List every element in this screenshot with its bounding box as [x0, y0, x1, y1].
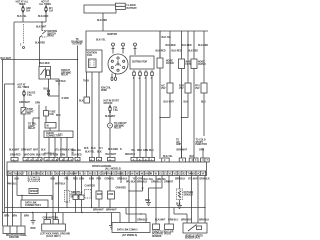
svg-text:KNK: KNK [109, 194, 114, 196]
svg-text:YEL-GRN: YEL-GRN [133, 179, 143, 181]
connector box x46 [45, 123, 56, 129]
svg-text:RELAY: RELAY [28, 127, 36, 130]
distributor circle [108, 54, 128, 74]
bottom segment 4 [174, 213, 187, 215]
fuse EFI [45, 6, 46, 7]
svg-text:BRN-BLK: BRN-BLK [200, 179, 211, 181]
svg-text:VC: VC [174, 173, 177, 175]
svg-text:BLK-RED: BLK-RED [188, 51, 198, 53]
svg-text:BLK-YEL: BLK-YEL [36, 154, 46, 156]
wire ac amp stub [181, 146, 183, 159]
wire left border 1 [2, 60, 4, 227]
svg-text:30A: 30A [26, 9, 30, 12]
svg-text:BRN-BLK: BRN-BLK [199, 219, 210, 221]
speed sensor box [29, 189, 38, 194]
svg-text:BLK-RED: BLK-RED [97, 20, 107, 22]
wire cold start stub [202, 148, 204, 159]
ground mid [146, 202, 151, 204]
svg-text:LT GRN: LT GRN [50, 154, 58, 156]
svg-text:VS: VS [65, 173, 68, 175]
svg-text:BLK-RED: BLK-RED [182, 45, 192, 47]
ground o2 [177, 205, 182, 207]
svg-text:BLK: BLK [51, 179, 56, 181]
wire horizontal y195 [17, 195, 52, 197]
svg-text:T E1: T E1 [58, 134, 63, 136]
svg-text:BLK-RED: BLK-RED [108, 149, 118, 151]
wire charging trunk [77, 46, 79, 158]
wire pairA right [169, 31, 171, 118]
svg-text:DATA LINK CONN 2: DATA LINK CONN 2 [117, 229, 138, 232]
wire pairC right [203, 31, 205, 83]
wire below w4 [51, 196, 53, 201]
svg-text:BLK-WHT: BLK-WHT [9, 150, 20, 152]
svg-text:WHT: WHT [33, 150, 39, 152]
svg-text:WHT: WHT [168, 182, 174, 184]
svg-text:VC: VC [197, 173, 200, 175]
wire pairA left cont [159, 68, 161, 159]
svg-text:BRN: BRN [145, 200, 150, 202]
noise filter box A [157, 58, 163, 68]
svg-text:OR RUN: OR RUN [104, 103, 113, 105]
svg-text:FL MAIN: FL MAIN [127, 4, 136, 7]
top terminal row [11, 157, 18, 160]
svg-text:VALVE: VALVE [164, 233, 172, 236]
svg-text:BATTERY: BATTERY [127, 7, 138, 10]
svg-text:G: G [84, 173, 86, 175]
svg-text:BLK-RED: BLK-RED [40, 63, 50, 65]
tower 3 [134, 43, 137, 46]
cell boxes [44, 220, 51, 225]
merge B [182, 117, 189, 119]
svg-text:BLU-YEL: BLU-YEL [144, 179, 154, 181]
svg-text:BLK: BLK [56, 115, 61, 117]
svg-text:GRN: GRN [89, 179, 94, 181]
wires coil down [91, 72, 93, 158]
svg-text:PPL-BLK: PPL-BLK [126, 182, 136, 184]
ECU terminal cells [7, 170, 207, 172]
svg-text:BRN: BRN [24, 216, 29, 218]
wire below w14 [135, 176, 137, 224]
svg-text:WHT-BLK: WHT-BLK [55, 184, 66, 186]
svg-text:COIL: COIL [87, 55, 93, 57]
svg-text:B-R: B-R [29, 179, 33, 181]
svg-text:BLK-YEL: BLK-YEL [96, 40, 106, 42]
svg-text:RED: RED [137, 150, 142, 152]
svg-text:OX: OX [192, 173, 196, 175]
small box SB2 [165, 224, 174, 230]
wire main left vertical [13, 22, 15, 164]
wire fuse EFI feed [45, 5, 47, 23]
merge A [160, 117, 170, 119]
svg-text:BLK-RED: BLK-RED [35, 43, 45, 45]
svg-text:BLK-WHT: BLK-WHT [164, 101, 175, 103]
svg-text:GRN-RED: GRN-RED [116, 188, 127, 190]
svg-text:15A: 15A [49, 9, 53, 12]
svg-text:TIMES: TIMES [19, 4, 26, 6]
wire pairC left [193, 31, 195, 59]
vsv box B [185, 83, 191, 93]
wire below w10 [98, 176, 100, 208]
connector [23, 47, 25, 49]
junction [39, 59, 40, 60]
svg-text:B-Y: B-Y [99, 148, 103, 150]
fuse GAUGE [23, 90, 25, 108]
svg-text:ORN-BLK: ORN-BLK [117, 179, 128, 181]
wire below w9 [91, 176, 93, 208]
wire igniter feed [102, 13, 104, 31]
svg-text:IGN: IGN [50, 114, 54, 116]
oxygen sensor [179, 176, 181, 190]
noise filter box B [179, 59, 185, 69]
svg-text:GRN: GRN [60, 154, 65, 156]
svg-text:DISTRIBUTOR: DISTRIBUTOR [132, 62, 147, 64]
left ground box [3, 226, 25, 234]
switch mid-left [21, 108, 26, 115]
vsv box A [167, 83, 173, 93]
svg-text:RED-BLU: RED-BLU [125, 154, 135, 156]
svg-text:BRN-WHT: BRN-WHT [181, 219, 192, 221]
svg-text:7.5A: 7.5A [27, 94, 32, 97]
svg-text:(RUN): (RUN) [47, 36, 54, 38]
svg-text:RELAY: RELAY [61, 74, 69, 77]
svg-text:NE: NE [136, 173, 140, 175]
junction [77, 59, 78, 60]
bottom bus 1 [5, 207, 205, 209]
svg-text:GRN: GRN [143, 150, 148, 152]
svg-text:BLK-ORN: BLK-ORN [38, 16, 49, 18]
svg-text:GRN-WHT: GRN-WHT [21, 150, 32, 152]
svg-text:S GRN: S GRN [62, 98, 69, 100]
wire below w2 [12, 176, 14, 227]
svg-text:(A/T MODELS): (A/T MODELS) [122, 234, 137, 237]
coil leads [111, 74, 113, 78]
svg-text:GRN-YEL: GRN-YEL [105, 179, 116, 181]
svg-text:VS: VS [89, 173, 92, 175]
distributor pin connectors [133, 72, 136, 76]
notch box 2 [116, 6, 126, 9]
svg-text:VSV: VSV [161, 88, 166, 90]
svg-text:BRN-BLK: BRN-BLK [175, 179, 186, 181]
wire long horizontal y59.5 [1, 59, 78, 61]
ground symbol 1 [32, 213, 34, 221]
svg-text:WHT-GRN: WHT-GRN [24, 154, 35, 156]
ignition coil box [86, 50, 102, 72]
ECU box [7, 162, 207, 176]
wire below w5 [52, 176, 54, 220]
svg-text:VSV: VSV [195, 88, 200, 90]
svg-text:PNK-BLU: PNK-BLU [7, 184, 17, 186]
svg-text:BLK-YEL: BLK-YEL [17, 16, 27, 18]
fuse STA [109, 105, 111, 124]
svg-text:BLK-RED: BLK-RED [156, 51, 166, 53]
distributor pins [133, 70, 135, 72]
svg-text:WHT-BLK: WHT-BLK [56, 81, 67, 83]
svg-text:YEL-GRN: YEL-GRN [55, 150, 65, 152]
wire below w1 [7, 176, 9, 227]
wire bus2 drop [119, 213, 121, 224]
svg-text:SENSOR: SENSOR [152, 236, 162, 238]
svg-text:BLK: BLK [79, 101, 84, 103]
wire pairB left cont [181, 69, 183, 160]
svg-text:BRN-WHT: BRN-WHT [106, 210, 117, 212]
wire below w3 [16, 176, 18, 196]
bottom segment 3 [126, 213, 146, 215]
svg-text:GRN-RED: GRN-RED [10, 154, 21, 156]
svg-text:SENSOR (A/T): SENSOR (A/T) [185, 237, 200, 240]
wire ignition switch feed [41, 22, 43, 31]
wire below w15 [142, 176, 144, 192]
svg-text:IGNITER: IGNITER [107, 33, 117, 36]
wire below w17 [155, 176, 157, 225]
ECM box [112, 223, 150, 233]
wire STA down [109, 128, 111, 158]
TPS box [183, 223, 207, 233]
svg-text:BLK-WHT: BLK-WHT [36, 27, 47, 29]
svg-text:BRN: BRN [4, 216, 9, 218]
svg-text:VC: VC [169, 173, 172, 175]
wire pairB left [181, 31, 183, 59]
svg-text:SPEED: SPEED [30, 191, 38, 193]
svg-text:(CALIF ONLY): (CALIF ONLY) [46, 235, 61, 238]
wire relay out left [48, 79, 50, 96]
svg-text:YEL: YEL [131, 150, 136, 152]
svg-text:BLK: BLK [184, 101, 189, 103]
svg-text:7.5A: 7.5A [113, 109, 118, 112]
svg-text:GRN: GRN [79, 179, 84, 181]
svg-text:GROUND: GROUND [9, 237, 19, 239]
tower 2 [122, 43, 125, 46]
svg-text:CONNECTOR 1: CONNECTOR 1 [25, 205, 42, 207]
svg-text:GRN: GRN [53, 217, 58, 219]
distributor box [130, 56, 154, 69]
svg-text:PPL: PPL [65, 179, 70, 181]
wire fuse AM2 feed [22, 5, 24, 23]
wire below w13 [128, 176, 130, 224]
wire below w18 [168, 176, 170, 225]
svg-text:IG: IG [42, 173, 45, 175]
svg-text:BLK-YEL: BLK-YEL [85, 152, 95, 154]
dashed boxes pair [28, 177, 34, 182]
svg-text:INJECTOR: INJECTOR [196, 144, 208, 146]
wire branch y118 [33, 117, 39, 119]
svg-text:WIRE: WIRE [101, 90, 107, 92]
svg-text:BLK-RED: BLK-RED [72, 155, 82, 157]
junction [21, 195, 22, 196]
wire below w21 [204, 176, 206, 208]
wire pairC right cont [203, 93, 205, 136]
svg-text:BLK-WHT: BLK-WHT [105, 116, 116, 118]
top center box [84, 5, 116, 13]
wire below w6 [58, 176, 60, 213]
svg-text:NE: NE [141, 173, 145, 175]
svg-text:SYSTEM: SYSTEM [72, 44, 81, 46]
wire below w7 [75, 176, 77, 213]
circuit opening relay box [39, 67, 51, 80]
svg-text:GRN: GRN [199, 150, 204, 152]
svg-text:GRN-BLU: GRN-BLU [168, 220, 179, 222]
fuse AM2 [22, 6, 23, 7]
wire below w19 [191, 176, 193, 224]
junction [13, 83, 14, 84]
svg-text:BLK: BLK [91, 148, 96, 150]
check connector box [44, 131, 73, 138]
connector circle [108, 123, 113, 128]
wire check pins [48, 138, 50, 158]
svg-text:GRN-BLU: GRN-BLU [137, 220, 148, 222]
svg-text:BLK-RED: BLK-RED [172, 51, 182, 53]
wire below w20 [197, 176, 199, 224]
junction [38, 117, 39, 118]
svg-text:+B: +B [61, 173, 64, 175]
svg-text:IDL: IDL [18, 173, 22, 175]
svg-text:BLK: BLK [176, 203, 181, 205]
wire below w16 [161, 176, 163, 189]
wires distributor down [133, 76, 135, 158]
ECU cell dividers [7, 171, 9, 176]
svg-text:BRN: BRN [31, 228, 36, 230]
svg-text:VC: VC [98, 173, 101, 175]
ignition switch [23, 24, 25, 44]
wire bus top-left [14, 21, 46, 23]
svg-text:AMP: AMP [176, 143, 181, 146]
svg-text:GRN: GRN [35, 103, 40, 105]
wire left border 2 [4, 84, 6, 213]
vsv box C [201, 83, 207, 93]
svg-text:ALL TIMES: ALL TIMES [39, 3, 51, 6]
svg-text:BRN-WHT: BRN-WHT [177, 150, 188, 152]
noise filter box C [191, 59, 197, 69]
svg-text:BLU: BLU [201, 101, 206, 103]
tower 1 [112, 43, 115, 46]
wire below w8 [81, 176, 83, 213]
small box SB1 [153, 224, 160, 230]
svg-text:BLK: BLK [15, 179, 20, 181]
wire x46 component [45, 106, 47, 123]
svg-text:W-B: W-B [84, 148, 89, 150]
svg-text:RELAY: RELAY [114, 127, 122, 130]
igniter frame [86, 31, 160, 58]
top right bus (continuation of igniter top line) [160, 30, 208, 32]
lower box [42, 224, 66, 231]
wire mid-left down [23, 114, 25, 158]
wire below w11 [109, 176, 111, 208]
svg-text:VS: VS [37, 173, 40, 175]
svg-text:BRN: BRN [12, 216, 17, 218]
svg-text:YEL-WHT: YEL-WHT [188, 179, 199, 181]
junction [41, 21, 42, 22]
wires into cells [46, 213, 48, 220]
wire below w12 [120, 176, 122, 184]
wire switch to relay [38, 38, 40, 67]
data link connector box [21, 200, 48, 208]
svg-text:EGR: EGR [97, 194, 102, 196]
wire pairC left cont [193, 69, 195, 160]
wire pairB right [187, 31, 189, 118]
wires into ground box [20, 213, 22, 227]
wire pairA left [159, 31, 161, 58]
ground symbol 3 [111, 213, 113, 226]
wire into TPS right [204, 208, 206, 223]
svg-text:BLK-RED: BLK-RED [198, 45, 208, 47]
svg-text:BLK: BLK [41, 150, 46, 152]
svg-text:VSV: VSV [179, 88, 184, 90]
cam sensor dashed box [85, 190, 92, 199]
svg-text:NE: NE [9, 173, 13, 175]
svg-text:BRN-WHT: BRN-WHT [93, 210, 104, 212]
svg-text:BLK-RED: BLK-RED [166, 45, 176, 47]
wire y191 branch [129, 190, 143, 192]
svg-text:BLK-WHT: BLK-WHT [155, 220, 166, 222]
notch box 1 [116, 3, 126, 6]
svg-text:BLK-WHT: BLK-WHT [106, 154, 117, 156]
svg-text:FILTER: FILTER [198, 64, 206, 66]
wire left horizontal y84 [5, 83, 15, 85]
throttle sensor dashed [66, 176, 68, 209]
svg-text:GRN-YEL: GRN-YEL [156, 179, 167, 181]
svg-text:GRN-WHT: GRN-WHT [19, 102, 30, 104]
svg-text:BLK: BLK [97, 152, 102, 154]
svg-text:PNK: PNK [97, 179, 102, 181]
wire relay out right [51, 79, 60, 132]
svg-text:BLU: BLU [149, 150, 154, 152]
svg-text:ALL TIMES: ALL TIMES [18, 86, 30, 89]
svg-text:(ALL MODELS): (ALL MODELS) [105, 168, 121, 171]
svg-text:FROM CHARGING: FROM CHARGING [92, 165, 112, 168]
bottom bus 2 [3, 212, 120, 214]
svg-text:CAM POS: CAM POS [85, 185, 96, 188]
wire dlc feed [21, 196, 23, 201]
svg-text:RED: RED [73, 179, 78, 181]
